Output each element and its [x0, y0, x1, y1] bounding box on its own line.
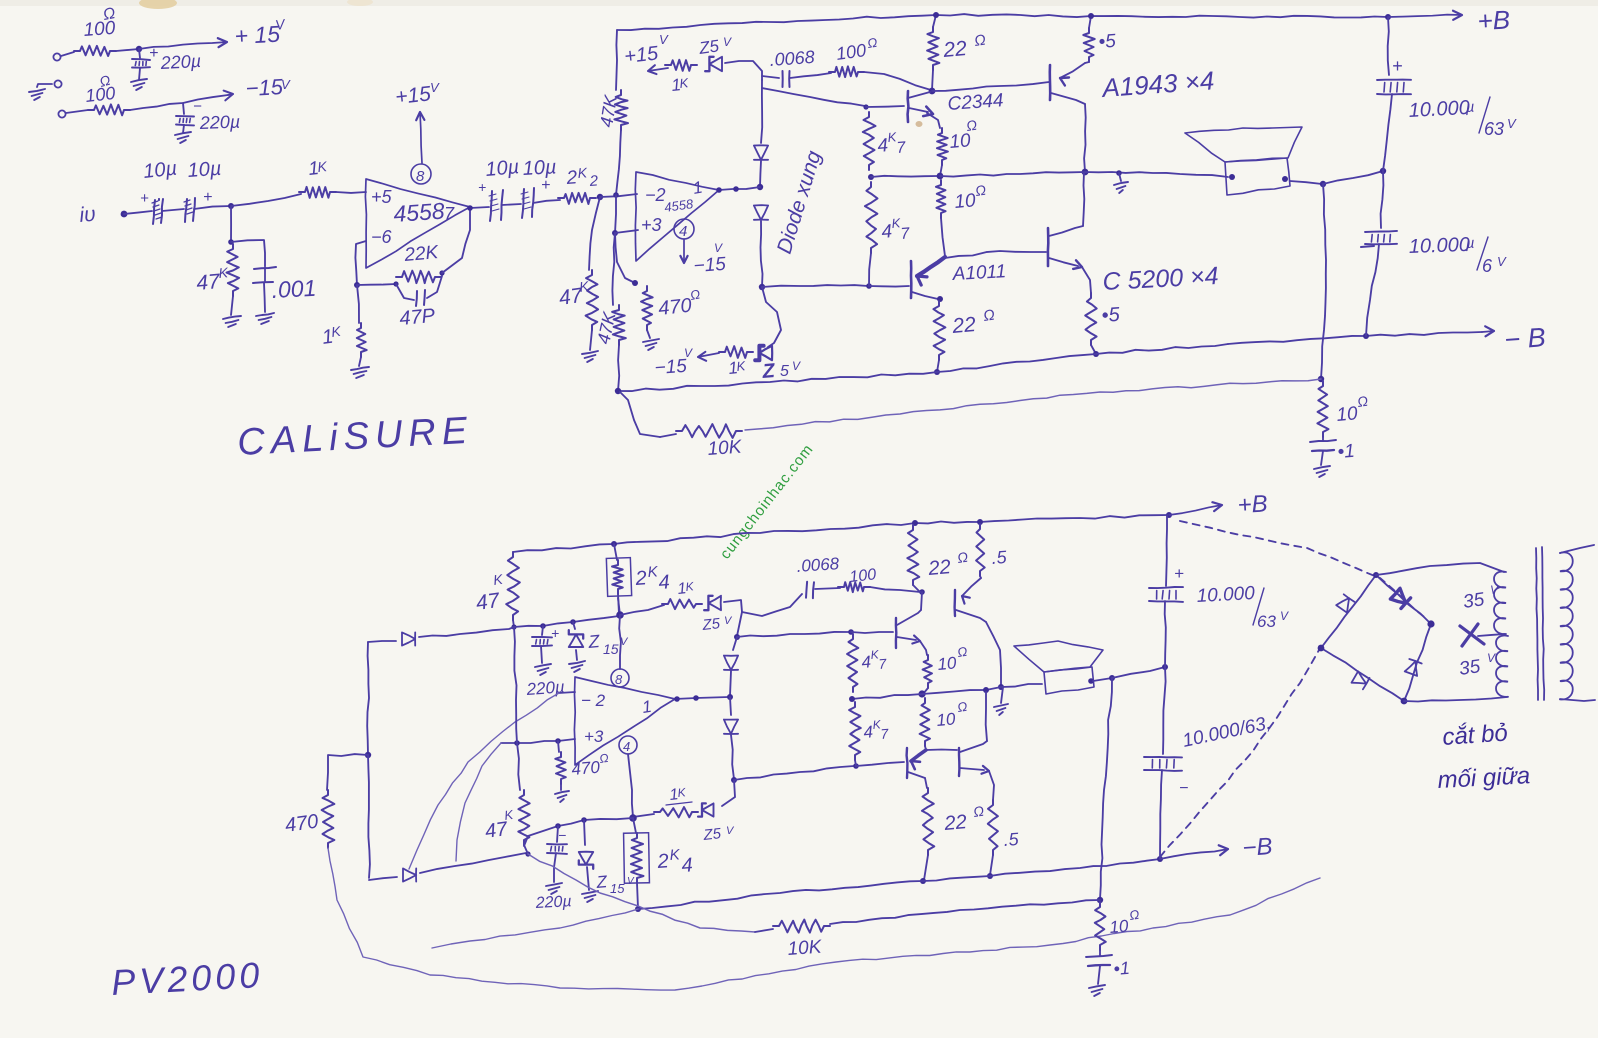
wire D2 to bottom node [761, 221, 763, 287]
node -B cap junction [1363, 333, 1369, 339]
svg-text:+: + [478, 179, 486, 195]
label .5 lower [1101, 304, 1121, 327]
label Z5V top [697, 35, 732, 58]
wire out upper collector down b [986, 622, 1001, 686]
wire left to 470 [327, 754, 368, 790]
wire capA to mid [1383, 94, 1392, 171]
wire 22 to C2344 node [932, 70, 933, 90]
label 47P [399, 305, 437, 330]
wire speaker b out [1093, 678, 1112, 681]
wire pin6 node [355, 241, 366, 285]
wire U1 output [470, 207, 489, 208]
node rail .5 bottom [977, 519, 983, 525]
label pin -2 U2 [645, 185, 666, 205]
node speaker b out [1109, 675, 1115, 681]
wire feedback node to 1K gnd [357, 285, 359, 323]
node reg minus [629, 814, 637, 822]
resistor 470 U3 [555, 741, 566, 784]
resistor 4K7 lower [865, 182, 878, 253]
node bottom rail left [615, 388, 621, 394]
wire 4K7 mid to rail [871, 176, 938, 177]
resistor .5 lower [1085, 293, 1097, 345]
pin 8 circle U3 [611, 669, 629, 687]
resistor 2K2 [558, 193, 596, 204]
wire C2344 emitter to 10ohm [927, 113, 940, 128]
wire 10ohm2 to A1011 emitter [941, 218, 945, 256]
wire pin4 down [628, 754, 633, 817]
label 10 ohm mid2 [954, 182, 988, 213]
svg-text:15: 15 [610, 881, 625, 896]
label 1K input [307, 158, 328, 180]
zener Z5V bottom b [698, 803, 713, 816]
node railA 22 [920, 878, 926, 884]
resistor 2K4 boxed top [606, 544, 631, 614]
svg-text:+: + [203, 189, 212, 206]
node top rail capA [1385, 14, 1391, 20]
wire +3 input [501, 739, 575, 743]
node Z15 minus [581, 817, 587, 823]
diode bias D2 bottom [724, 697, 738, 734]
label cat bo [1442, 719, 1509, 750]
resistor .5 bottom b [988, 800, 998, 855]
svg-text:−: − [1179, 780, 1188, 797]
svg-text:V: V [1490, 583, 1499, 597]
label +15V U1 [394, 80, 440, 109]
resistor 100 bottom [838, 582, 870, 592]
label 10 ohm mid1 [949, 117, 979, 153]
svg-text:10: 10 [1109, 916, 1130, 937]
wire +3 to opamp [615, 230, 638, 233]
capacitor .1 zobel top [1310, 437, 1336, 465]
svg-text:+: + [541, 177, 550, 194]
svg-text:•1: •1 [1113, 958, 1131, 979]
wire reg node line [514, 616, 619, 627]
arrowhead -B b [1160, 845, 1228, 859]
resistor 100 ohm lower [88, 104, 130, 115]
diode bias D1 top [754, 145, 768, 160]
wire 1K to opamp pin5 [336, 191, 366, 194]
wire output rail b [852, 684, 1042, 699]
node 2K2 right [597, 194, 603, 200]
label 22 ohm lower [950, 307, 995, 339]
svg-text:2: 2 [565, 167, 578, 189]
speaker top horn [1185, 127, 1302, 162]
wire speaker node down [1321, 184, 1326, 379]
node left 470 junction [365, 752, 371, 758]
node chain bottom [759, 284, 765, 290]
svg-text:− B: − B [1503, 322, 1546, 355]
svg-text:15: 15 [603, 641, 619, 657]
wire C5200 base wire [945, 251, 1046, 258]
svg-text:+: + [1174, 564, 1184, 583]
capacitor 220u reg pos [532, 625, 559, 646]
node C2344 base feed [863, 104, 868, 109]
capacitor 10000u/6V top amp [1361, 171, 1397, 247]
node rail +B bottom [1166, 512, 1172, 518]
resistor 4K7 b2 [849, 702, 861, 760]
svg-text:100: 100 [835, 40, 868, 64]
label 35V upper [1462, 583, 1499, 613]
speaker bottom horn [1014, 641, 1103, 672]
svg-text:V: V [792, 359, 801, 373]
wire driver collector b [921, 592, 922, 610]
label 10 ohm zobel top [1336, 393, 1370, 426]
wire D2b down [731, 735, 734, 779]
label plus cap4 [541, 177, 550, 194]
speaker top box [1225, 158, 1290, 195]
label 1K top bottom amp [677, 579, 696, 598]
wire input to cap [124, 211, 152, 214]
ground 47K left [582, 351, 598, 362]
resistor 47K upper vertical [614, 90, 628, 130]
label 10K fb [707, 437, 744, 460]
label -15V [245, 74, 291, 101]
wire .5b to emitter [980, 576, 981, 578]
wire 10ohm to rail node [940, 165, 942, 176]
node Z15 reg [570, 619, 576, 625]
wire bottom rail top amp [618, 344, 1228, 391]
resistor 47K input [227, 244, 240, 296]
label 47K upper rotated [596, 93, 621, 129]
node speaker left [1229, 174, 1235, 180]
wire caps to node [194, 206, 231, 209]
label 47K input [195, 264, 229, 295]
svg-text:4: 4 [681, 854, 694, 877]
label 470 U3 [571, 751, 610, 779]
wire between caps [162, 209, 184, 211]
svg-text:Z5: Z5 [702, 825, 723, 844]
svg-text:8: 8 [416, 168, 425, 185]
label C5200 x4 [1102, 262, 1219, 296]
wire output rail [940, 172, 1228, 177]
wire node to .0068 [762, 76, 779, 78]
svg-text:V: V [723, 35, 732, 49]
resistor 2K4 boxed bottom [624, 818, 650, 883]
label 10 ohm zobel b [1109, 907, 1141, 937]
label 1K zener bottom [727, 358, 747, 378]
wire to driver base b [851, 632, 893, 633]
svg-text:10K: 10K [787, 937, 824, 960]
resistor 47K mid vertical [612, 305, 626, 345]
label .1 zobel b [1113, 958, 1131, 979]
svg-text:µ: µ [1466, 235, 1475, 252]
wire C5200 emitter to .5 [1082, 267, 1091, 293]
node zobel top junction [1318, 376, 1324, 382]
label 220u reg [525, 677, 566, 699]
wire 100 to 22 node bottom [870, 587, 920, 592]
wire diode row 2 right [420, 853, 526, 873]
svg-text:35: 35 [1462, 589, 1486, 613]
node chain mid b [727, 694, 733, 700]
svg-text:22K: 22K [403, 242, 441, 266]
label pin 1 U3 [641, 697, 653, 717]
diode input row2 [403, 868, 416, 881]
transformer core lines [1536, 547, 1544, 700]
label 1K bottom b [666, 785, 692, 805]
transistor output upper b [955, 578, 986, 622]
ground left psu [29, 84, 52, 100]
label 100 lower [84, 83, 116, 106]
svg-text:63: 63 [1484, 119, 1504, 139]
arrowhead +15 rail [648, 65, 657, 74]
node diode chain top b [734, 634, 740, 640]
label 470 ohm U2 [657, 286, 701, 320]
label 22 ohm bottom b [943, 803, 986, 835]
node U2 output [716, 186, 739, 193]
wire D1b to out node [730, 671, 731, 696]
label 10000/63 b2 [1181, 713, 1273, 752]
ground psu lower cap [175, 132, 191, 143]
op-amp U3 triangle [574, 677, 675, 765]
node bridge right [1427, 620, 1434, 627]
wire 2K2 node curve down [589, 197, 600, 270]
label pin -2 U3 [581, 691, 606, 710]
label 10K b [787, 937, 824, 960]
resistor 10 ohm mid1 [937, 128, 948, 165]
node speaker out [1320, 181, 1326, 187]
svg-text:.001: .001 [271, 275, 317, 303]
wire base node to C2344 [866, 106, 904, 107]
svg-text:.0068: .0068 [769, 47, 815, 70]
capacitor 10u input 2 [184, 198, 195, 222]
label C2344 [947, 90, 1004, 115]
wire 47K mid to bottom rail [618, 345, 619, 391]
label .5 upper [1098, 31, 1117, 53]
label 220u lower [198, 112, 240, 133]
resistor 1K zener top [665, 60, 697, 71]
ground psu upper cap [131, 79, 147, 90]
svg-text:− 2: − 2 [581, 691, 606, 710]
wire 10ohm b2 to emitter lower [925, 746, 926, 750]
node junction top psu [136, 46, 142, 52]
zener Z15 reg [569, 622, 583, 660]
label 100 top amp [835, 35, 879, 64]
transformer primary winding [1560, 545, 1595, 701]
wire 2K4 to reg node [618, 598, 620, 615]
label 4K7 b1 [861, 647, 889, 672]
label Z15V minus [595, 872, 635, 896]
label Z5V bottom b [702, 825, 735, 844]
node diode chain mid [757, 184, 763, 190]
svg-text:+: + [140, 190, 149, 207]
node bridge left [1318, 645, 1325, 652]
capacitor .0068 bottom [806, 582, 814, 598]
ground stub rail b [994, 687, 1008, 715]
node +3 470 [555, 738, 561, 744]
svg-text:8: 8 [615, 672, 623, 687]
wire chain bottom S-curve [762, 287, 781, 347]
op-amp U2 4558 triangle [635, 172, 719, 261]
svg-text:µ: µ [1465, 99, 1475, 116]
capacitor 10000u/63V plates [1377, 80, 1411, 95]
arrowhead -15V [224, 91, 233, 101]
label 2K2 [565, 164, 599, 190]
label 47K bottom amp 1 [474, 571, 504, 615]
svg-text:Z5: Z5 [701, 615, 722, 634]
svg-text:mối giữa: mối giữa [1437, 762, 1531, 794]
svg-text:100: 100 [849, 566, 877, 586]
svg-text:10.000: 10.000 [1408, 97, 1470, 122]
svg-text:−B: −B [1242, 833, 1274, 862]
svg-text:A1011: A1011 [951, 261, 1007, 285]
resistor 1K zener bottom [719, 346, 753, 358]
svg-text:PV2000: PV2000 [110, 954, 264, 1003]
wire top rail left drop [616, 30, 617, 90]
wire corner to .0068 b [742, 594, 802, 616]
transistor C5200 [1048, 226, 1083, 269]
wire lower collector up b [986, 692, 987, 741]
wire .5b bottom to rail [990, 855, 993, 875]
svg-text:−15: −15 [693, 254, 727, 277]
wire 10K to zobel b [830, 900, 1100, 924]
wire 22 ohm drop [933, 15, 936, 27]
svg-text:.0068: .0068 [796, 554, 840, 576]
svg-text:−2: −2 [645, 185, 666, 205]
stain top left [139, 0, 177, 9]
wire lower base wire b [926, 749, 957, 752]
svg-text:63: 63 [1257, 612, 1276, 631]
wire +3 node down [615, 233, 635, 283]
node cap chain mid [1380, 168, 1386, 174]
wire pin8 up [619, 615, 621, 669]
label plus cap3 [478, 179, 486, 195]
node output rail A1943 [1082, 169, 1089, 176]
label -15V U2 [693, 241, 727, 277]
op-amp U1 4558 triangle [365, 179, 470, 268]
wire left vertical to diode2 [368, 755, 370, 878]
svg-text:6: 6 [1482, 256, 1493, 276]
wire diode row 2 left [369, 877, 397, 880]
label 4558 U2 [663, 196, 694, 215]
capacitor 10000u/63V top wire [1388, 17, 1389, 75]
svg-text:Ω: Ω [598, 751, 609, 766]
resistor 10 ohm mid2 [936, 180, 946, 218]
node 47K/.001 junction [228, 239, 234, 245]
svg-text:10µ: 10µ [522, 156, 557, 180]
label 10 ohm b1 [937, 644, 969, 674]
resistor 22K feedback [396, 271, 441, 283]
node U3 out1 [674, 696, 680, 702]
label pin -6 [371, 227, 393, 247]
node 220u minus [555, 823, 561, 829]
wire 4K7 b2 to base [855, 760, 856, 766]
label 4558 U1 [393, 197, 446, 227]
label 470 left bottom [284, 811, 320, 837]
capacitor 10u input 1 [152, 199, 163, 224]
node speaker right [1282, 176, 1288, 182]
wire feedback from rail [620, 392, 660, 437]
diode bridge BL [1352, 671, 1370, 689]
pin 8 circle U1 [411, 164, 431, 185]
label 10000/63V capA [1408, 97, 1517, 139]
wire 2K2 node to U2 pin2 [600, 194, 637, 197]
label -15V bottom [654, 346, 693, 379]
node speaker b right [1088, 678, 1094, 684]
ground 1K U1 [351, 367, 369, 378]
wire C5200 collector up [1083, 172, 1084, 226]
resistor 22 ohm bottom b [922, 788, 934, 855]
svg-text:10: 10 [1336, 403, 1359, 426]
resistor 4K7 b1 [847, 634, 858, 692]
svg-text:22: 22 [943, 811, 968, 835]
svg-text:10: 10 [954, 190, 977, 213]
svg-text:V: V [1487, 651, 1496, 665]
svg-text:10.000: 10.000 [1196, 583, 1256, 607]
svg-text:47: 47 [474, 589, 502, 615]
svg-text:−15: −15 [654, 356, 688, 379]
wire top rail [617, 14, 1388, 30]
wire lower driver collector [925, 778, 927, 788]
label plus 220u upper [149, 45, 158, 62]
pin 4 circle U3 [619, 736, 637, 754]
wire node to 22K [357, 284, 396, 285]
wire 2K4b to rail [637, 883, 638, 908]
svg-text:470: 470 [284, 811, 320, 837]
wire left vertical input [367, 642, 369, 754]
wire chainb node right [737, 632, 849, 637]
node railA .5 [987, 873, 993, 879]
wire 47K to ground [231, 296, 233, 315]
wire -2 stub [559, 692, 575, 693]
label 2K4 top [634, 563, 671, 594]
ground 220u minus [546, 883, 562, 894]
resistor 1K to ground U1 [357, 323, 367, 357]
resistor 1K bottom b [654, 807, 698, 817]
ground Z15 reg [569, 661, 585, 672]
label 1K zener top [670, 75, 690, 95]
zener Z5V bottom [755, 346, 772, 360]
wire zener top to node [725, 61, 762, 80]
label CALISURE [236, 410, 474, 464]
label .0068 bottom [796, 554, 840, 576]
zener Z5V top bottom amp [704, 596, 721, 610]
svg-text:Ω: Ω [982, 307, 996, 325]
wire minus reg line [524, 818, 633, 846]
svg-text:10.000: 10.000 [1408, 234, 1470, 258]
ground 220u reg [535, 664, 551, 675]
capacitor 47P plates [416, 290, 425, 306]
arrow pin4 to -15 [680, 239, 687, 263]
svg-text:22: 22 [950, 313, 977, 338]
wire top rail bottom amp [513, 515, 1169, 552]
resistor 1K top bottom amp [620, 599, 702, 615]
label .5 top b [991, 547, 1008, 568]
wire pin8 to +15 arrow [416, 112, 424, 163]
capacitor 220u minus [547, 826, 567, 882]
wire A1943 collector down [1084, 104, 1086, 172]
wire -B rail [1228, 332, 1482, 344]
label A1943 x4 [1099, 65, 1215, 103]
svg-text:470: 470 [571, 758, 601, 779]
wire 47K to -2 node [616, 130, 621, 195]
resistor 47K top left bottom amp [506, 552, 520, 620]
ground Z15 minus [582, 891, 598, 902]
label input 1V [78, 203, 96, 227]
svg-text:22: 22 [927, 556, 952, 580]
diode bridge BR [1405, 659, 1422, 676]
svg-text:10K: 10K [707, 437, 744, 460]
node plus3 [612, 230, 618, 236]
capacitor 10000/63 b1 [1149, 515, 1184, 602]
label ohm upper [102, 5, 117, 24]
label 47K left [557, 278, 590, 310]
svg-text:+: + [1392, 56, 1403, 76]
wire speaker out to cap b [1112, 667, 1165, 678]
ground zobel top [1314, 466, 1330, 477]
wire feedback to output node [745, 379, 1321, 430]
diode bias D2 top [754, 205, 768, 220]
capacitor .1 zobel b [1086, 950, 1112, 984]
